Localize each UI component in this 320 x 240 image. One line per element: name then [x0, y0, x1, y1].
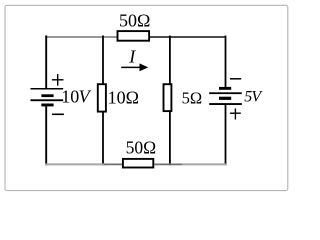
resistor 50ohm top box — [118, 31, 150, 41]
wire 5ohm branch vertical lower — [169, 112, 171, 166]
wire left vertical upper — [45, 35, 47, 88]
plus sign left battery — [52, 74, 64, 86]
plus sign right battery — [230, 109, 241, 120]
wire bottom right-dark — [154, 163, 182, 165]
wire top-left (node TL to R-top) — [45, 36, 117, 38]
battery B1 10V — [31, 88, 64, 106]
wire top-right (R-top to node TR) — [149, 36, 227, 38]
minus sign left battery — [52, 113, 64, 115]
svg-text:10: 10 — [61, 87, 79, 107]
svg-text:10Ω: 10Ω — [108, 88, 139, 108]
label 5ohm — [182, 88, 203, 107]
label 50ohm bottom — [126, 137, 157, 157]
wire right vertical upper — [225, 36, 227, 88]
svg-text:I: I — [128, 46, 136, 66]
label 10V — [61, 87, 91, 107]
wire bottom left-dark — [104, 163, 122, 165]
current label I — [128, 46, 136, 66]
wire 5ohm branch vertical upper — [169, 36, 171, 84]
svg-text:50Ω: 50Ω — [119, 11, 150, 31]
label 50ohm top — [119, 11, 150, 31]
wire bottom-left — [45, 163, 105, 165]
wire right vertical lower — [225, 105, 227, 165]
resistor 5ohm box — [164, 84, 172, 111]
battery B2 5V — [209, 87, 242, 105]
wire bottom-right — [182, 163, 226, 165]
label 5V — [244, 88, 263, 105]
wire left vertical lower — [45, 106, 47, 165]
minus sign right battery — [230, 78, 241, 80]
resistor 50ohm bottom box — [123, 159, 153, 168]
figure border frame — [5, 5, 288, 190]
current arrow — [121, 63, 148, 71]
label 10ohm — [108, 88, 139, 108]
svg-text:50Ω: 50Ω — [126, 137, 157, 157]
svg-text:5Ω: 5Ω — [182, 88, 203, 107]
resistor 10ohm box — [98, 84, 106, 111]
wire middle vertical lower — [102, 113, 104, 166]
wire middle vertical upper — [102, 36, 104, 84]
